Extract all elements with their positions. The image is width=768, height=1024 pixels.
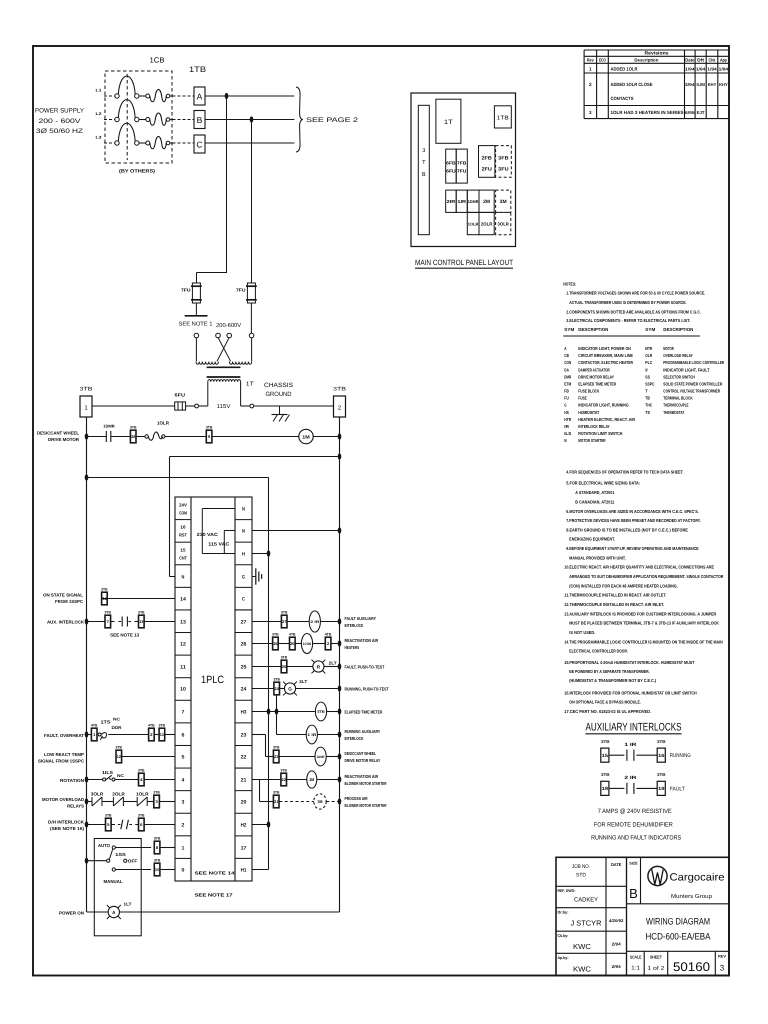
svg-text:DESCRIPTION: DESCRIPTION	[578, 327, 608, 332]
svg-text:COM: COM	[179, 511, 187, 516]
svg-text:27: 27	[282, 619, 287, 624]
svg-text:POWER ON: POWER ON	[59, 910, 84, 915]
terminal 3TB-3	[154, 795, 160, 808]
wire row 2 b	[144, 824, 175, 826]
svg-text:SIZE: SIZE	[629, 861, 638, 866]
svg-text:RELAYS: RELAYS	[67, 804, 84, 809]
node left rail motor row	[85, 433, 89, 439]
svg-text:2FU: 2FU	[482, 167, 493, 173]
elapsed time meter ETM	[315, 702, 326, 721]
wire row 25 a	[252, 666, 281, 668]
wire row 26 d	[313, 643, 326, 645]
svg-text:DDR: DDR	[112, 725, 122, 730]
desiccant wheel drive motor label	[37, 431, 80, 443]
svg-text:CADKEY: CADKEY	[574, 897, 598, 904]
svg-text:AUXILIARY INTERLOCKS: AUXILIARY INTERLOCKS	[586, 722, 682, 734]
terminal 3TB-23	[273, 750, 279, 763]
terminal 3TB-22	[281, 773, 287, 786]
svg-text:FUSE BLOCK: FUSE BLOCK	[578, 389, 600, 394]
selector manual contact	[112, 868, 115, 871]
svg-text:1IR: 1IR	[457, 199, 467, 204]
pilot light R 2LT	[311, 660, 337, 674]
svg-text:H: H	[242, 551, 245, 557]
hot bus vertical V1	[268, 554, 270, 870]
svg-text:3TB: 3TB	[273, 678, 280, 682]
svg-text:ELECTRICAL CONTROLLER DOOR.: ELECTRICAL CONTROLLER DOOR.	[569, 649, 628, 654]
svg-text:FAULT AUXILIARY: FAULT AUXILIARY	[345, 616, 377, 621]
1CB pole L2	[96, 100, 194, 126]
svg-text:NC: NC	[117, 773, 124, 778]
svg-text:1 IR: 1 IR	[624, 742, 637, 747]
svg-text:ROTATION: ROTATION	[60, 778, 84, 783]
1TB terminal C	[194, 135, 205, 153]
svg-text:12: 12	[180, 641, 186, 647]
wire row 26 a	[252, 643, 272, 645]
terminal 3TB-6	[139, 818, 145, 831]
svg-text:THERMOSTAT: THERMOSTAT	[663, 410, 684, 415]
svg-text:1:1: 1:1	[631, 966, 640, 972]
svg-text:12: 12	[117, 754, 122, 759]
svg-text:1ILS: 1ILS	[102, 770, 113, 775]
wire manual to PLC 0	[160, 869, 175, 871]
wire row 6 c	[155, 734, 159, 736]
svg-text:22: 22	[241, 754, 247, 760]
wire power on b	[120, 911, 340, 913]
svg-text:7 AMPS @ 240V RESISTIVE: 7 AMPS @ 240V RESISTIVE	[598, 808, 672, 815]
svg-text:REACTIVATION AIR: REACTIVATION AIR	[345, 638, 379, 643]
svg-text:SOLID STATE POWER CONTROLLER: SOLID STATE POWER CONTROLLER	[663, 381, 722, 386]
see page 2 brace	[296, 87, 303, 152]
svg-text:25: 25	[282, 664, 287, 669]
wire H2 to hot bus	[252, 824, 269, 826]
svg-text:G: G	[242, 574, 245, 580]
svg-text:CON: CON	[564, 360, 571, 365]
svg-text:HEATERS: HEATERS	[345, 645, 360, 650]
motor overload relays label	[42, 797, 84, 809]
selector pivot contacts	[107, 849, 127, 862]
svg-text:ELAPSED TIME METER: ELAPSED TIME METER	[578, 381, 616, 386]
svg-text:A STANDARD, AT2001: A STANDARD, AT2001	[575, 490, 615, 495]
svg-text:3TB: 3TB	[138, 814, 145, 818]
svg-text:Ck.by:: Ck.by:	[558, 933, 569, 938]
svg-text:3TB: 3TB	[138, 769, 145, 773]
svg-text:1T: 1T	[246, 382, 255, 388]
contact 1DMR	[103, 424, 115, 443]
svg-text:ADDED 1OLR: ADDED 1OLR	[611, 67, 639, 72]
svg-text:BLOWER MOTOR STARTER: BLOWER MOTOR STARTER	[345, 781, 388, 786]
svg-text:2LT: 2LT	[329, 660, 337, 665]
svg-text:2M: 2M	[483, 199, 490, 205]
terminal 3TB-9	[206, 430, 212, 443]
wire row 6 d	[165, 734, 175, 736]
terminal 3TB-8	[154, 841, 160, 854]
wire row 26 b	[279, 643, 290, 645]
relay coil 2IR	[309, 611, 320, 632]
svg-text:ECO: ECO	[599, 58, 606, 63]
sheet field	[647, 955, 664, 973]
terminal 3TB-24	[274, 682, 280, 695]
wire row 13 a	[87, 621, 105, 623]
svg-text:ON OPTIONAL FACE & BYPASS MODU: ON OPTIONAL FACE & BYPASS MODULE.	[569, 700, 641, 705]
svg-text:Dr.by:: Dr.by:	[558, 910, 569, 915]
wire row 4 c	[144, 779, 175, 781]
svg-text:Cargocaire: Cargocaire	[670, 872, 725, 884]
svg-text:Revisions: Revisions	[645, 51, 669, 57]
PLC earth symbol at G	[252, 568, 262, 584]
terminal 3TB-27	[281, 615, 287, 628]
svg-text:REF. DWG:: REF. DWG:	[558, 888, 576, 893]
svg-text:EJT: EJT	[697, 110, 705, 115]
symbol legend list	[564, 346, 725, 443]
svg-text:T: T	[645, 389, 648, 394]
PLC left terminal labels	[179, 503, 187, 874]
svg-text:26: 26	[241, 641, 247, 647]
svg-text:HUMIDISTAT: HUMIDISTAT	[578, 410, 599, 415]
auxiliary interlocks title	[586, 722, 682, 734]
wire row 24 a	[252, 688, 274, 690]
svg-text:21: 21	[274, 799, 279, 804]
svg-text:(BY OTHERS): (BY OTHERS)	[119, 169, 155, 175]
svg-text:DESICCANT WHEEL: DESICCANT WHEEL	[37, 431, 79, 436]
svg-text:DAMPER ACTUATOR: DAMPER ACTUATOR	[578, 367, 610, 372]
hot feed wire from left rail	[87, 478, 269, 554]
svg-text:3FU: 3FU	[498, 167, 509, 173]
terminal 3TB-11	[159, 728, 165, 741]
svg-text:3OLR: 3OLR	[498, 222, 510, 227]
svg-text:Chk: Chk	[709, 58, 716, 63]
node right rail 1DMR row	[338, 753, 342, 759]
svg-text:App: App	[720, 58, 727, 63]
wire row 3 c	[123, 801, 137, 803]
svg-text:7FU: 7FU	[457, 169, 466, 174]
panel 7FB 7FU block	[456, 149, 467, 183]
terminal 3TB-25	[281, 660, 287, 673]
terminal 3TB-26	[273, 637, 279, 650]
wire row 23 c	[326, 756, 339, 758]
svg-text:C: C	[242, 596, 245, 602]
node left rail 1SS feed	[85, 858, 89, 864]
svg-text:24: 24	[275, 686, 280, 691]
push-to-test tap V2	[276, 695, 278, 712]
svg-text:3: 3	[720, 964, 725, 973]
primary cross links	[196, 338, 251, 362]
svg-text:4/20/92: 4/20/92	[609, 918, 624, 923]
wire H terminal to hot bus	[252, 553, 269, 555]
svg-text:PROGRAMMABLE LOGIC CONTROLLER: PROGRAMMABLE LOGIC CONTROLLER	[663, 360, 725, 365]
svg-text:16.INTERLOCK PROVIDED FOR OPTI: 16.INTERLOCK PROVIDED FOR OPTIONAL HUMID…	[564, 691, 696, 696]
svg-text:SEE NOTE 13: SEE NOTE 13	[110, 633, 140, 638]
wire winding right to rail	[241, 405, 250, 407]
svg-text:SEE NOTE 1: SEE NOTE 1	[179, 322, 213, 328]
svg-text:RUNNING AUXILIARY: RUNNING AUXILIARY	[345, 729, 381, 734]
wire row 5	[122, 756, 175, 758]
svg-text:C: C	[196, 139, 202, 149]
svg-text:3TB: 3TB	[273, 746, 280, 750]
wire auto to PLC 1	[160, 847, 175, 849]
wire phase C	[205, 142, 294, 144]
svg-text:IS NOT USED.: IS NOT USED.	[569, 630, 595, 635]
svg-text:1OLR: 1OLR	[136, 791, 149, 796]
contactor coil 1CON	[301, 634, 312, 654]
wire auto row	[115, 847, 151, 849]
svg-text:200-600V: 200-600V	[216, 322, 241, 329]
motor 1M	[299, 429, 313, 443]
svg-text:2 IR: 2 IR	[624, 775, 637, 780]
wire row 27 b	[287, 621, 309, 623]
node right rail neutral	[338, 453, 342, 459]
overload contact 3OLR	[91, 791, 104, 806]
svg-text:2: 2	[589, 82, 592, 87]
panel 1OLR block	[467, 212, 479, 234]
panel 1T block	[436, 99, 461, 143]
terminal 3TB-21	[273, 795, 279, 808]
right rail (3TB-2 bus)	[339, 417, 341, 912]
svg-text:14: 14	[102, 596, 107, 601]
panel 3M block (optional)	[496, 190, 511, 212]
svg-text:3TB: 3TB	[206, 426, 213, 430]
terminal 3TB-5	[106, 818, 112, 831]
svg-text:CIRCUIT BREAKER, MAIN LINE: CIRCUIT BREAKER, MAIN LINE	[578, 353, 633, 358]
wire 1SS feed	[87, 860, 107, 862]
svg-text:Dft: Dft	[697, 58, 704, 63]
svg-text:6FU: 6FU	[175, 392, 186, 397]
svg-text:ACTUAL TRANSFORMER USED IS DET: ACTUAL TRANSFORMER USED IS DETERMINED BY…	[569, 300, 686, 305]
svg-text:LOW REACT TEMP: LOW REACT TEMP	[44, 752, 84, 757]
svg-text:1CON: 1CON	[303, 642, 312, 646]
wire row 23 output step	[252, 735, 273, 757]
svg-text:17: 17	[241, 845, 247, 851]
wire row 21	[252, 779, 281, 781]
svg-text:B: B	[197, 115, 203, 125]
terminal 4TB-20	[290, 637, 296, 650]
terminal 3TB-7	[105, 615, 111, 628]
panel 1IR block	[456, 190, 467, 212]
svg-text:Date: Date	[685, 58, 695, 63]
fuse 6FU	[175, 392, 186, 410]
ref dwg field	[558, 888, 599, 904]
svg-text:3TB: 3TB	[272, 633, 279, 637]
svg-text:19: 19	[658, 786, 665, 791]
svg-text:REACTIVATION AIR: REACTIVATION AIR	[345, 774, 379, 779]
left rail (3TB-1 bus)	[86, 417, 88, 912]
svg-text:ETM: ETM	[564, 381, 571, 386]
svg-text:ILS: ILS	[564, 431, 571, 436]
svg-text:NC: NC	[113, 717, 120, 722]
node right rail row 24	[338, 685, 342, 691]
svg-text:DRIVE MOTOR RELAY: DRIVE MOTOR RELAY	[345, 758, 381, 763]
svg-text:3TB: 3TB	[601, 739, 610, 744]
svg-text:2/94: 2/94	[612, 942, 622, 947]
svg-text:DESICCANT WHEEL: DESICCANT WHEEL	[345, 751, 377, 756]
svg-text:JOB NO.: JOB NO.	[572, 864, 590, 870]
svg-text:1OLR: 1OLR	[157, 420, 170, 425]
terminal 4TB-2	[325, 637, 331, 650]
svg-text:3LT: 3LT	[299, 679, 307, 684]
svg-text:6FU: 6FU	[446, 169, 455, 174]
svg-text:L3: L3	[96, 136, 102, 140]
svg-text:KWC: KWC	[573, 965, 591, 974]
svg-text:FOR REMOTE DEHUMIDIFIER: FOR REMOTE DEHUMIDIFIER	[594, 822, 673, 829]
svg-text:1OLR: 1OLR	[468, 222, 479, 227]
node right rail N2	[338, 527, 342, 533]
svg-text:6FB: 6FB	[446, 161, 455, 166]
wire 1IR from hot bus	[277, 712, 307, 735]
wire row 3 d	[147, 801, 153, 803]
svg-text:1DMR: 1DMR	[103, 424, 115, 429]
drawn by field	[558, 910, 625, 928]
svg-text:SEE NOTE 14: SEE NOTE 14	[195, 871, 236, 876]
svg-text:14.THE PROGRAMMABLE LOGIC CONT: 14.THE PROGRAMMABLE LOGIC CONTROLLER IS …	[564, 639, 722, 644]
selector auto contact	[112, 846, 115, 849]
approved by field	[558, 955, 622, 974]
secondary terminal circle left	[195, 404, 199, 408]
wire row 4 a	[87, 779, 103, 781]
svg-text:15.PROPORTIONAL 4-20mA HUMIDIS: 15.PROPORTIONAL 4-20mA HUMIDISTAT INTERL…	[564, 660, 694, 665]
node left rail row 6	[85, 731, 89, 737]
wire row 6 b	[108, 734, 148, 736]
1TB terminal B	[194, 111, 205, 129]
wire motor row 3	[136, 436, 145, 438]
main control panel layout title	[415, 258, 513, 268]
svg-text:PROCESS AIR: PROCESS AIR	[345, 796, 369, 801]
svg-text:BE POWERED BY A SEPARATE TRANS: BE POWERED BY A SEPARATE TRANSFORMER.	[569, 669, 649, 674]
node V2 at H3	[275, 708, 279, 714]
svg-text:16: 16	[180, 525, 186, 530]
svg-text:1/94: 1/94	[685, 67, 695, 72]
svg-text:INDICATOR LIGHT, RUNNING: INDICATOR LIGHT, RUNNING	[578, 403, 629, 408]
wire motor row 6	[313, 436, 339, 438]
svg-text:1TB: 1TB	[189, 65, 206, 74]
svg-text:10: 10	[155, 867, 160, 872]
svg-text:B: B	[422, 172, 426, 178]
svg-text:15: 15	[602, 753, 609, 758]
PLC 1PLC outline	[175, 497, 252, 881]
terminal 3TB-13	[139, 615, 145, 628]
wire N2 to right rail	[252, 530, 340, 532]
wire row 24 b	[280, 688, 285, 690]
svg-text:3: 3	[422, 148, 425, 154]
svg-text:SSPC: SSPC	[645, 381, 654, 386]
svg-text:1T: 1T	[444, 119, 453, 126]
svg-text:FROM 1SSPC: FROM 1SSPC	[55, 599, 83, 604]
svg-text:OLR: OLR	[645, 353, 653, 358]
wire row 13 b	[144, 621, 175, 623]
wire phase A	[205, 95, 294, 97]
low react temp label	[38, 752, 84, 764]
chassis ground label	[264, 382, 293, 398]
svg-text:SCALE: SCALE	[630, 955, 642, 960]
svg-text:M: M	[564, 438, 567, 443]
svg-text:10.ELECTRIC REACT. AIR HEATER: 10.ELECTRIC REACT. AIR HEATER QUANTITY A…	[564, 565, 714, 570]
svg-text:SYM: SYM	[564, 327, 574, 332]
svg-text:ARRANGED TO SUIT DEHUMIDIFIER: ARRANGED TO SUIT DEHUMIDIFIER APPLICATIO…	[569, 574, 724, 579]
notes text block	[563, 282, 705, 324]
svg-text:DA: DA	[564, 367, 569, 372]
svg-text:17.CEC PART NO. 61823-02 IS UL: 17.CEC PART NO. 61823-02 IS UL APPROVED.	[564, 709, 651, 714]
wire row 25 c	[324, 666, 340, 668]
svg-text:Rev: Rev	[587, 58, 594, 63]
svg-text:1SS: 1SS	[115, 852, 126, 857]
svg-text:1: 1	[589, 67, 592, 72]
wire row 2 a	[87, 824, 106, 826]
svg-text:GROUND: GROUND	[266, 391, 293, 398]
svg-text:INTERLOCK: INTERLOCK	[345, 736, 365, 741]
svg-text:2M: 2M	[309, 777, 315, 782]
svg-text:FAULT: FAULT	[670, 786, 686, 792]
svg-text:SHEET: SHEET	[650, 955, 662, 960]
svg-text:3M: 3M	[318, 799, 324, 804]
terminal block 1TB	[189, 65, 206, 74]
svg-text:AUTO: AUTO	[98, 843, 111, 848]
wire row 25 b	[287, 666, 313, 668]
svg-text:MOTOR: MOTOR	[663, 346, 674, 351]
svg-text:G: G	[288, 686, 292, 691]
svg-text:115V: 115V	[217, 404, 231, 410]
svg-text:3TB: 3TB	[116, 746, 123, 750]
node left rail hot feed	[85, 474, 89, 480]
jumper contact see note 13	[111, 617, 138, 627]
svg-text:(CON) INSTALLED FOR EACH 48 AM: (CON) INSTALLED FOR EACH 48 AMPERE HEATE…	[569, 583, 678, 588]
node left rail row 2	[85, 821, 89, 827]
svg-text:CONTROL VOLTAGE TRANSFORMER: CONTROL VOLTAGE TRANSFORMER	[663, 389, 720, 394]
svg-text:3TB: 3TB	[281, 656, 288, 660]
svg-text:20: 20	[241, 799, 247, 805]
d/h interlock label	[48, 819, 85, 831]
drawing title	[646, 916, 712, 942]
svg-text:7FU: 7FU	[181, 287, 191, 292]
svg-text:22: 22	[282, 777, 287, 782]
svg-text:18: 18	[602, 786, 609, 791]
panel 1DMR block	[467, 190, 479, 212]
svg-text:2.COMPONENTS SHOWN DOTTED ARE: 2.COMPONENTS SHOWN DOTTED ARE AVAILABLE …	[566, 309, 701, 314]
transformer 1T primary terminals	[194, 322, 254, 338]
wire secondary right	[254, 405, 334, 407]
svg-text:DMR: DMR	[564, 374, 572, 379]
wire motor row 1	[87, 436, 107, 438]
svg-text:MAIN CONTROL PANEL LAYOUT: MAIN CONTROL PANEL LAYOUT	[415, 258, 513, 267]
svg-text:CHASSIS: CHASSIS	[264, 382, 293, 389]
motor starter coil 2M	[307, 771, 317, 788]
svg-text:SEE NOTE 17: SEE NOTE 17	[195, 893, 234, 898]
svg-text:8.EARTH GROUND IS TO BE INSTAL: 8.EARTH GROUND IS TO BE INSTALLED (NOT B…	[566, 527, 688, 532]
panel 3TB block	[418, 105, 429, 234]
svg-text:7.PROTECTIVE DEVICES HAVE BEEN: 7.PROTECTIVE DEVICES HAVE BEEN PRESET AN…	[566, 518, 701, 523]
svg-text:J STCYR: J STCYR	[571, 919, 602, 928]
svg-text:230 VAC: 230 VAC	[197, 532, 219, 537]
panel 2M block	[479, 190, 494, 212]
svg-text:3FB: 3FB	[498, 156, 509, 162]
svg-text:SEE PAGE 2: SEE PAGE 2	[306, 117, 358, 124]
svg-text:3Ø 50/60 HZ: 3Ø 50/60 HZ	[36, 128, 83, 135]
panel 3FB 3FU block (optional)	[496, 146, 512, 178]
main control panel layout box	[411, 93, 516, 247]
svg-text:115 VAC: 115 VAC	[208, 542, 230, 547]
wire phase B	[205, 119, 294, 121]
wire fuse B to transformer	[250, 303, 252, 333]
svg-text:ETM: ETM	[317, 710, 324, 714]
svg-text:INDICATOR LIGHT, POWER ON: INDICATOR LIGHT, POWER ON	[578, 346, 631, 351]
svg-text:3TB: 3TB	[154, 859, 161, 863]
aux interlocks caption	[591, 808, 681, 842]
PLC terminal cell separators	[175, 520, 252, 859]
svg-text:0: 0	[182, 867, 185, 873]
svg-text:1OLR HAD 3 HEATERS IN SERIES: 1OLR HAD 3 HEATERS IN SERIES	[611, 110, 684, 115]
wire motor row 2	[111, 436, 130, 438]
thermostat 1TS	[98, 717, 122, 740]
svg-text:12.THERMOCOUPLE INSTALLED IN R: 12.THERMOCOUPLE INSTALLED IN REACT. AIR …	[564, 602, 664, 607]
svg-text:13.AUXILIARY INTERLOCK IS PROV: 13.AUXILIARY INTERLOCK IS PROVIDED FOR C…	[564, 611, 717, 616]
svg-text:CONTACTOR, ELECTRIC HEATER: CONTACTOR, ELECTRIC HEATER	[578, 360, 633, 365]
